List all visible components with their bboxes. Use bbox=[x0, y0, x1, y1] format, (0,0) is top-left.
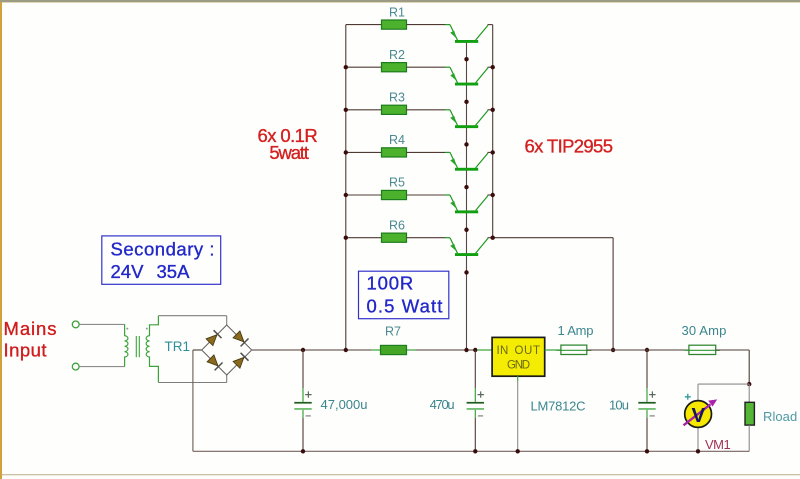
label Mains Input bbox=[4, 318, 57, 361]
wire Q6 collector lead bbox=[488, 237, 493, 239]
transistor Q1 TIP2955 bbox=[445, 25, 488, 43]
svg-text:Secondary :: Secondary : bbox=[111, 239, 215, 260]
junction collector output / main rail bbox=[611, 348, 615, 352]
junction 470u tap bbox=[473, 348, 477, 352]
wire secondary top to bridge bbox=[158, 315, 226, 317]
wire Q4 collector lead bbox=[488, 151, 493, 153]
diode D3 (lower-left, points to bottom vertex) bbox=[207, 355, 222, 370]
junction 47000u tap bbox=[301, 348, 305, 352]
capacitor C3 10u bbox=[638, 350, 655, 451]
svg-text:R5: R5 bbox=[389, 176, 405, 190]
junction left rail bbox=[344, 65, 348, 69]
wire negative rail vertical bbox=[192, 350, 194, 451]
resistor R3 bbox=[382, 105, 407, 114]
wire regulator IN lead bbox=[477, 349, 492, 351]
transformer TR1 phase dots bbox=[126, 328, 148, 330]
wire Q1 collector lead bbox=[488, 24, 493, 26]
resistor R2 bbox=[382, 63, 407, 72]
junction bottom rail C2 bbox=[473, 449, 477, 453]
junction collector rail bbox=[491, 193, 495, 197]
svg-text:R3: R3 bbox=[389, 91, 405, 105]
junction base rail bbox=[464, 142, 468, 146]
wire collector output vertical bbox=[612, 238, 614, 350]
label VM1 plus bbox=[685, 394, 691, 400]
wire row 6 left lead bbox=[346, 237, 382, 239]
svg-text:R2: R2 bbox=[389, 48, 405, 62]
transformer TR1 primary winding bbox=[125, 324, 128, 366]
resistor R4 bbox=[382, 148, 407, 157]
wire bottom rail bbox=[193, 450, 749, 452]
wire voltmeter bottom lead bbox=[697, 428, 699, 452]
wire Rload top lead bbox=[748, 384, 750, 402]
svg-text:V: V bbox=[691, 404, 705, 427]
wire bridge top vertex lead bbox=[226, 316, 228, 325]
svg-text:Mains: Mains bbox=[4, 318, 57, 339]
svg-text:Rload: Rload bbox=[763, 409, 797, 424]
capacitor C2 470u bbox=[467, 350, 484, 451]
wire regulator GND lead bbox=[517, 376, 519, 451]
wire Rload bottom lead bbox=[748, 425, 750, 451]
wire row 5 emitter lead bbox=[407, 194, 446, 196]
fuse F1 1 Amp bbox=[557, 345, 592, 354]
wire row 2 emitter lead bbox=[407, 66, 446, 68]
wire input bottom lead bbox=[79, 366, 124, 368]
junction base rail bbox=[464, 185, 468, 189]
wire Q2 collector lead bbox=[488, 66, 493, 68]
wire bridge negative lead bbox=[193, 349, 202, 351]
junction collector rail bbox=[491, 236, 495, 240]
junction base rail bbox=[464, 57, 468, 61]
svg-text:5watt: 5watt bbox=[269, 142, 309, 163]
wire row 1 emitter lead bbox=[407, 24, 446, 26]
annotation box 100R 0.5 Watt bbox=[359, 271, 449, 319]
junction left rail bbox=[344, 108, 348, 112]
diode D2 (upper-right, points to right vertex) bbox=[233, 331, 248, 346]
svg-text:10u: 10u bbox=[609, 398, 629, 413]
terminal input bottom bbox=[72, 363, 79, 370]
junction bottom rail VM1 bbox=[696, 449, 700, 453]
wire load branch vertical upper bbox=[748, 350, 750, 384]
junction left rail / main rail bbox=[344, 348, 348, 352]
svg-text:35A: 35A bbox=[157, 261, 191, 282]
transistor Q6 TIP2955 bbox=[445, 238, 488, 256]
wire secondary bottom to bridge bbox=[158, 382, 226, 384]
wire main rail left section bbox=[252, 349, 492, 351]
svg-text:R6: R6 bbox=[389, 218, 405, 232]
transistor Q5 TIP2955 bbox=[445, 195, 488, 213]
capacitor C1 47,000u bbox=[294, 350, 311, 451]
junction base rail bbox=[464, 228, 468, 232]
wire left rail bbox=[345, 25, 347, 350]
wire row 1 left lead bbox=[346, 24, 382, 26]
wire main rail to load corner bbox=[716, 349, 750, 351]
svg-text:30 Amp: 30 Amp bbox=[682, 323, 727, 338]
junction base rail bbox=[464, 100, 468, 104]
transistor Q2 TIP2955 bbox=[445, 67, 488, 85]
transistor Q4 TIP2955 bbox=[445, 152, 488, 170]
op-amp U1 LM7812C regulator bbox=[492, 337, 545, 376]
junction 10u tap bbox=[645, 348, 649, 352]
junction left rail bbox=[344, 193, 348, 197]
wire row 4 left lead bbox=[346, 151, 382, 153]
junction left rail bbox=[344, 150, 348, 154]
resistor Rload bbox=[745, 402, 754, 425]
svg-text:R1: R1 bbox=[389, 5, 405, 19]
wire input top lead bbox=[79, 323, 124, 325]
wire row 3 left lead bbox=[346, 109, 382, 111]
wire collector rail bbox=[492, 25, 494, 238]
svg-text:47,000u: 47,000u bbox=[321, 397, 368, 412]
junction base rail bbox=[464, 270, 468, 274]
resistor R5 bbox=[382, 190, 407, 199]
voltmeter VM1 bbox=[684, 399, 718, 427]
svg-text:470u: 470u bbox=[430, 397, 455, 412]
svg-text:R7: R7 bbox=[385, 325, 401, 339]
wire row 4 emitter lead bbox=[407, 151, 446, 153]
fuse F2 30 Amp bbox=[685, 345, 721, 354]
svg-text:OUT: OUT bbox=[515, 345, 541, 357]
label 6x 0.1R 5watt bbox=[258, 125, 318, 163]
svg-text:VM1: VM1 bbox=[705, 437, 731, 452]
svg-text:Input: Input bbox=[4, 339, 47, 360]
wire regulator OUT lead bbox=[545, 349, 562, 351]
svg-text:0.5 Watt: 0.5 Watt bbox=[367, 296, 443, 317]
svg-text:100R: 100R bbox=[367, 272, 414, 293]
transistor Q3 TIP2955 bbox=[445, 110, 488, 128]
svg-text:IN: IN bbox=[497, 345, 509, 357]
svg-text:GND: GND bbox=[507, 360, 530, 372]
svg-text:LM7812C: LM7812C bbox=[531, 398, 586, 413]
wire Q5 collector lead bbox=[488, 194, 493, 196]
wire base rail bbox=[466, 42, 468, 351]
wire voltmeter top horizontal bbox=[698, 383, 749, 385]
label 6x TIP2955 bbox=[525, 136, 614, 157]
diode D1 (upper-left, points to top vertex) bbox=[206, 330, 221, 345]
svg-text:1 Amp: 1 Amp bbox=[558, 323, 594, 338]
wire Q3 collector lead bbox=[488, 109, 493, 111]
junction collector rail bbox=[491, 150, 495, 154]
wire row 6 emitter lead bbox=[407, 237, 446, 239]
resistor R1 bbox=[382, 20, 407, 29]
junction bottom rail C3 bbox=[645, 449, 649, 453]
junction collector rail bbox=[491, 65, 495, 69]
svg-text:24V: 24V bbox=[111, 261, 145, 282]
diode D4 (lower-right, points to right vertex) bbox=[233, 353, 248, 368]
svg-text:6x TIP2955: 6x TIP2955 bbox=[525, 136, 614, 157]
wire voltmeter top lead bbox=[697, 384, 699, 402]
wire row 3 emitter lead bbox=[407, 109, 446, 111]
transformer TR1 core bbox=[136, 336, 139, 357]
junction base rail / main rail bbox=[464, 348, 468, 352]
junction voltmeter tap bbox=[747, 382, 751, 386]
resistor R7 bbox=[371, 345, 416, 354]
wire collector output horizontal bbox=[493, 237, 613, 239]
svg-text:TR1: TR1 bbox=[165, 339, 191, 354]
svg-text:R4: R4 bbox=[389, 133, 405, 147]
wire bridge bottom vertex lead bbox=[226, 375, 228, 383]
resistor R6 bbox=[382, 233, 407, 242]
wire row 2 left lead bbox=[346, 66, 382, 68]
bridge rectifier diamond bbox=[202, 325, 252, 375]
wire main rail after F1 bbox=[587, 349, 689, 351]
wire row 5 left lead bbox=[346, 194, 382, 196]
annotation box Secondary 24V 35A bbox=[102, 236, 221, 284]
junction bottom rail GND bbox=[516, 449, 520, 453]
transformer TR1 secondary winding bbox=[146, 316, 158, 383]
junction left rail bbox=[344, 236, 348, 240]
terminal input top bbox=[72, 321, 79, 328]
junction bottom rail C1 bbox=[301, 449, 305, 453]
junction collector rail bbox=[491, 108, 495, 112]
